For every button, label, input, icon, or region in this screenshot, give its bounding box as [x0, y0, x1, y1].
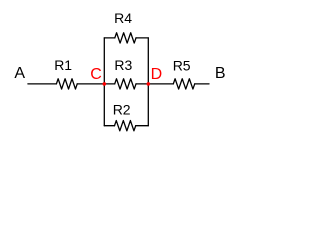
left vertical wire (node C bus) — [103, 38, 105, 126]
wire R3 to node D — [136, 83, 148, 85]
svg-text:R4: R4 — [114, 10, 132, 26]
bottom rail wire left — [104, 125, 114, 127]
resistor R4 — [114, 10, 136, 43]
wire D to R5 — [148, 83, 173, 85]
wire R1 to node C — [77, 83, 104, 85]
resistor R5 — [173, 58, 195, 89]
svg-text:R1: R1 — [54, 57, 72, 73]
wire R5 to B — [195, 83, 209, 85]
resistor R3 — [114, 57, 136, 89]
svg-text:D: D — [151, 66, 163, 83]
node C — [90, 66, 102, 83]
resistor R2 — [113, 102, 136, 131]
wire C to R3 — [104, 83, 114, 85]
resistor R1 — [54, 57, 77, 89]
top rail wire left — [104, 37, 115, 39]
svg-text:B: B — [215, 65, 226, 82]
svg-text:R5: R5 — [173, 58, 191, 74]
junction dot node C — [103, 82, 107, 86]
right vertical wire (node D bus) — [147, 38, 149, 126]
svg-text:R2: R2 — [113, 102, 131, 118]
wire A to R1 — [28, 83, 57, 85]
svg-text:R3: R3 — [114, 57, 132, 73]
node D — [151, 66, 163, 83]
top rail wire right — [136, 37, 148, 39]
junction dot node D — [147, 82, 151, 86]
svg-text:A: A — [14, 65, 25, 82]
bottom rail wire right — [136, 125, 149, 127]
svg-text:C: C — [90, 66, 102, 83]
